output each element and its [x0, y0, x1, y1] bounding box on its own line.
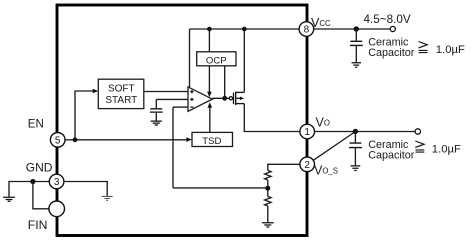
svg-text:VCC: VCC [311, 16, 331, 30]
wire: OCP output to amp (down arrow) [208, 66, 210, 92]
svg-text:GND: GND [26, 161, 53, 175]
pin 5 [50, 133, 65, 148]
svg-text:1.0µF: 1.0µF [432, 144, 461, 156]
svg-text:4.5~8.0V: 4.5~8.0V [364, 13, 411, 26]
svg-text:1: 1 [304, 127, 310, 138]
wire: divider to ground [267, 206, 269, 222]
wire: feedback vertical [172, 107, 174, 188]
node: output cap junction [353, 129, 358, 134]
ground (far left) [3, 197, 15, 201]
capacitor C1 (reference bypass) [155, 99, 157, 108]
svg-text:Capacitor: Capacitor [368, 47, 415, 59]
capacitor C2 (input ceramic) [355, 29, 357, 41]
terminal (input, open circle) [390, 26, 395, 31]
wire: rail drop to error-amp top vertex [189, 29, 191, 88]
OCP U2 [197, 52, 236, 66]
pin +: top input mark [190, 90, 193, 93]
ground (divider) [262, 223, 274, 227]
pin +: middle input mark [190, 98, 193, 101]
wire: pin 8 to input terminal [314, 28, 391, 30]
node: input cap junction [354, 26, 359, 31]
svg-text:EN: EN [28, 119, 44, 131]
wire: amp output to gate [212, 97, 229, 99]
svg-text:Capacitor: Capacitor [368, 149, 415, 161]
resistor R1 [265, 170, 271, 180]
wire: divider middle [267, 180, 269, 196]
pin 8 [299, 22, 314, 37]
ground (output cap) [351, 166, 361, 171]
pin -: bottom input mark [190, 106, 193, 108]
svg-text:5: 5 [55, 135, 61, 146]
pin FIN [49, 201, 65, 217]
TSD U5 [192, 132, 233, 146]
capacitor C3 (output ceramic) [354, 132, 356, 143]
svg-text:FIN: FIN [28, 218, 48, 232]
wire: reference to amp + input [156, 98, 188, 100]
wire: pin 1 to output terminal [314, 131, 415, 133]
pin 3 [49, 174, 64, 189]
node: EN branch junction [73, 137, 78, 142]
pin 2 [300, 157, 315, 172]
wire: GND to FIN link [33, 182, 49, 209]
svg-text:OCP: OCP [206, 56, 227, 67]
ground (reference cap) [151, 121, 162, 125]
svg-text:TSD: TSD [202, 136, 221, 147]
symbol >= (input) [419, 42, 428, 53]
wire: feedback to amp - input [173, 106, 188, 108]
wire: soft-start output to amp + input [144, 91, 188, 93]
node: GND branch junction [30, 179, 35, 184]
symbol >= (output) [415, 141, 424, 152]
svg-text:VO_S: VO_S [314, 163, 338, 177]
ground (right of GND pin) [102, 196, 113, 200]
wire: EN wire from pin 5 to TSD [65, 139, 187, 141]
svg-text:VO: VO [316, 115, 330, 129]
wire: pin 2 diagonal to output node [313, 132, 355, 161]
pin 1 [300, 124, 315, 139]
svg-text:3: 3 [54, 177, 60, 188]
wire: feedback horizontal to divider tap [173, 187, 268, 189]
ground (input cap) [352, 63, 362, 68]
terminal (output, open circle) [415, 129, 420, 134]
wire: MOSFET drain down to VO [244, 104, 300, 132]
SOFT START U4 [98, 79, 144, 108]
svg-text:2: 2 [304, 160, 310, 171]
wire: OCP output to gate node [224, 66, 226, 99]
transistor Q1 (PMOS pass device) [229, 97, 232, 100]
node: rail junction at OCP feed [207, 27, 212, 32]
op-amp U3 (error amplifier) [188, 87, 212, 111]
node: rail junction at MOSFET feed [242, 27, 247, 32]
svg-text:START: START [105, 95, 137, 106]
svg-text:8: 8 [304, 25, 310, 36]
wire: GND pin left to ground [9, 182, 50, 197]
node: gate junction [222, 96, 227, 101]
IC outline U1 [57, 5, 307, 236]
wire: EN to soft start branch vertical [75, 91, 93, 140]
wire: GND pin right to ground [64, 182, 107, 196]
wire: rail drop to MOSFET source [243, 29, 245, 92]
wire: TSD to amp (up arrow) [209, 107, 211, 132]
svg-text:1.0µF: 1.0µF [436, 44, 465, 56]
wire: internal VCC rail from pin 8 [190, 28, 300, 30]
wire: rail drop into OCP top [208, 29, 210, 52]
node: divider tap [265, 186, 270, 191]
resistor R2 [265, 196, 271, 206]
svg-text:SOFT: SOFT [108, 84, 135, 95]
wire: pin 2 to divider [268, 164, 301, 170]
